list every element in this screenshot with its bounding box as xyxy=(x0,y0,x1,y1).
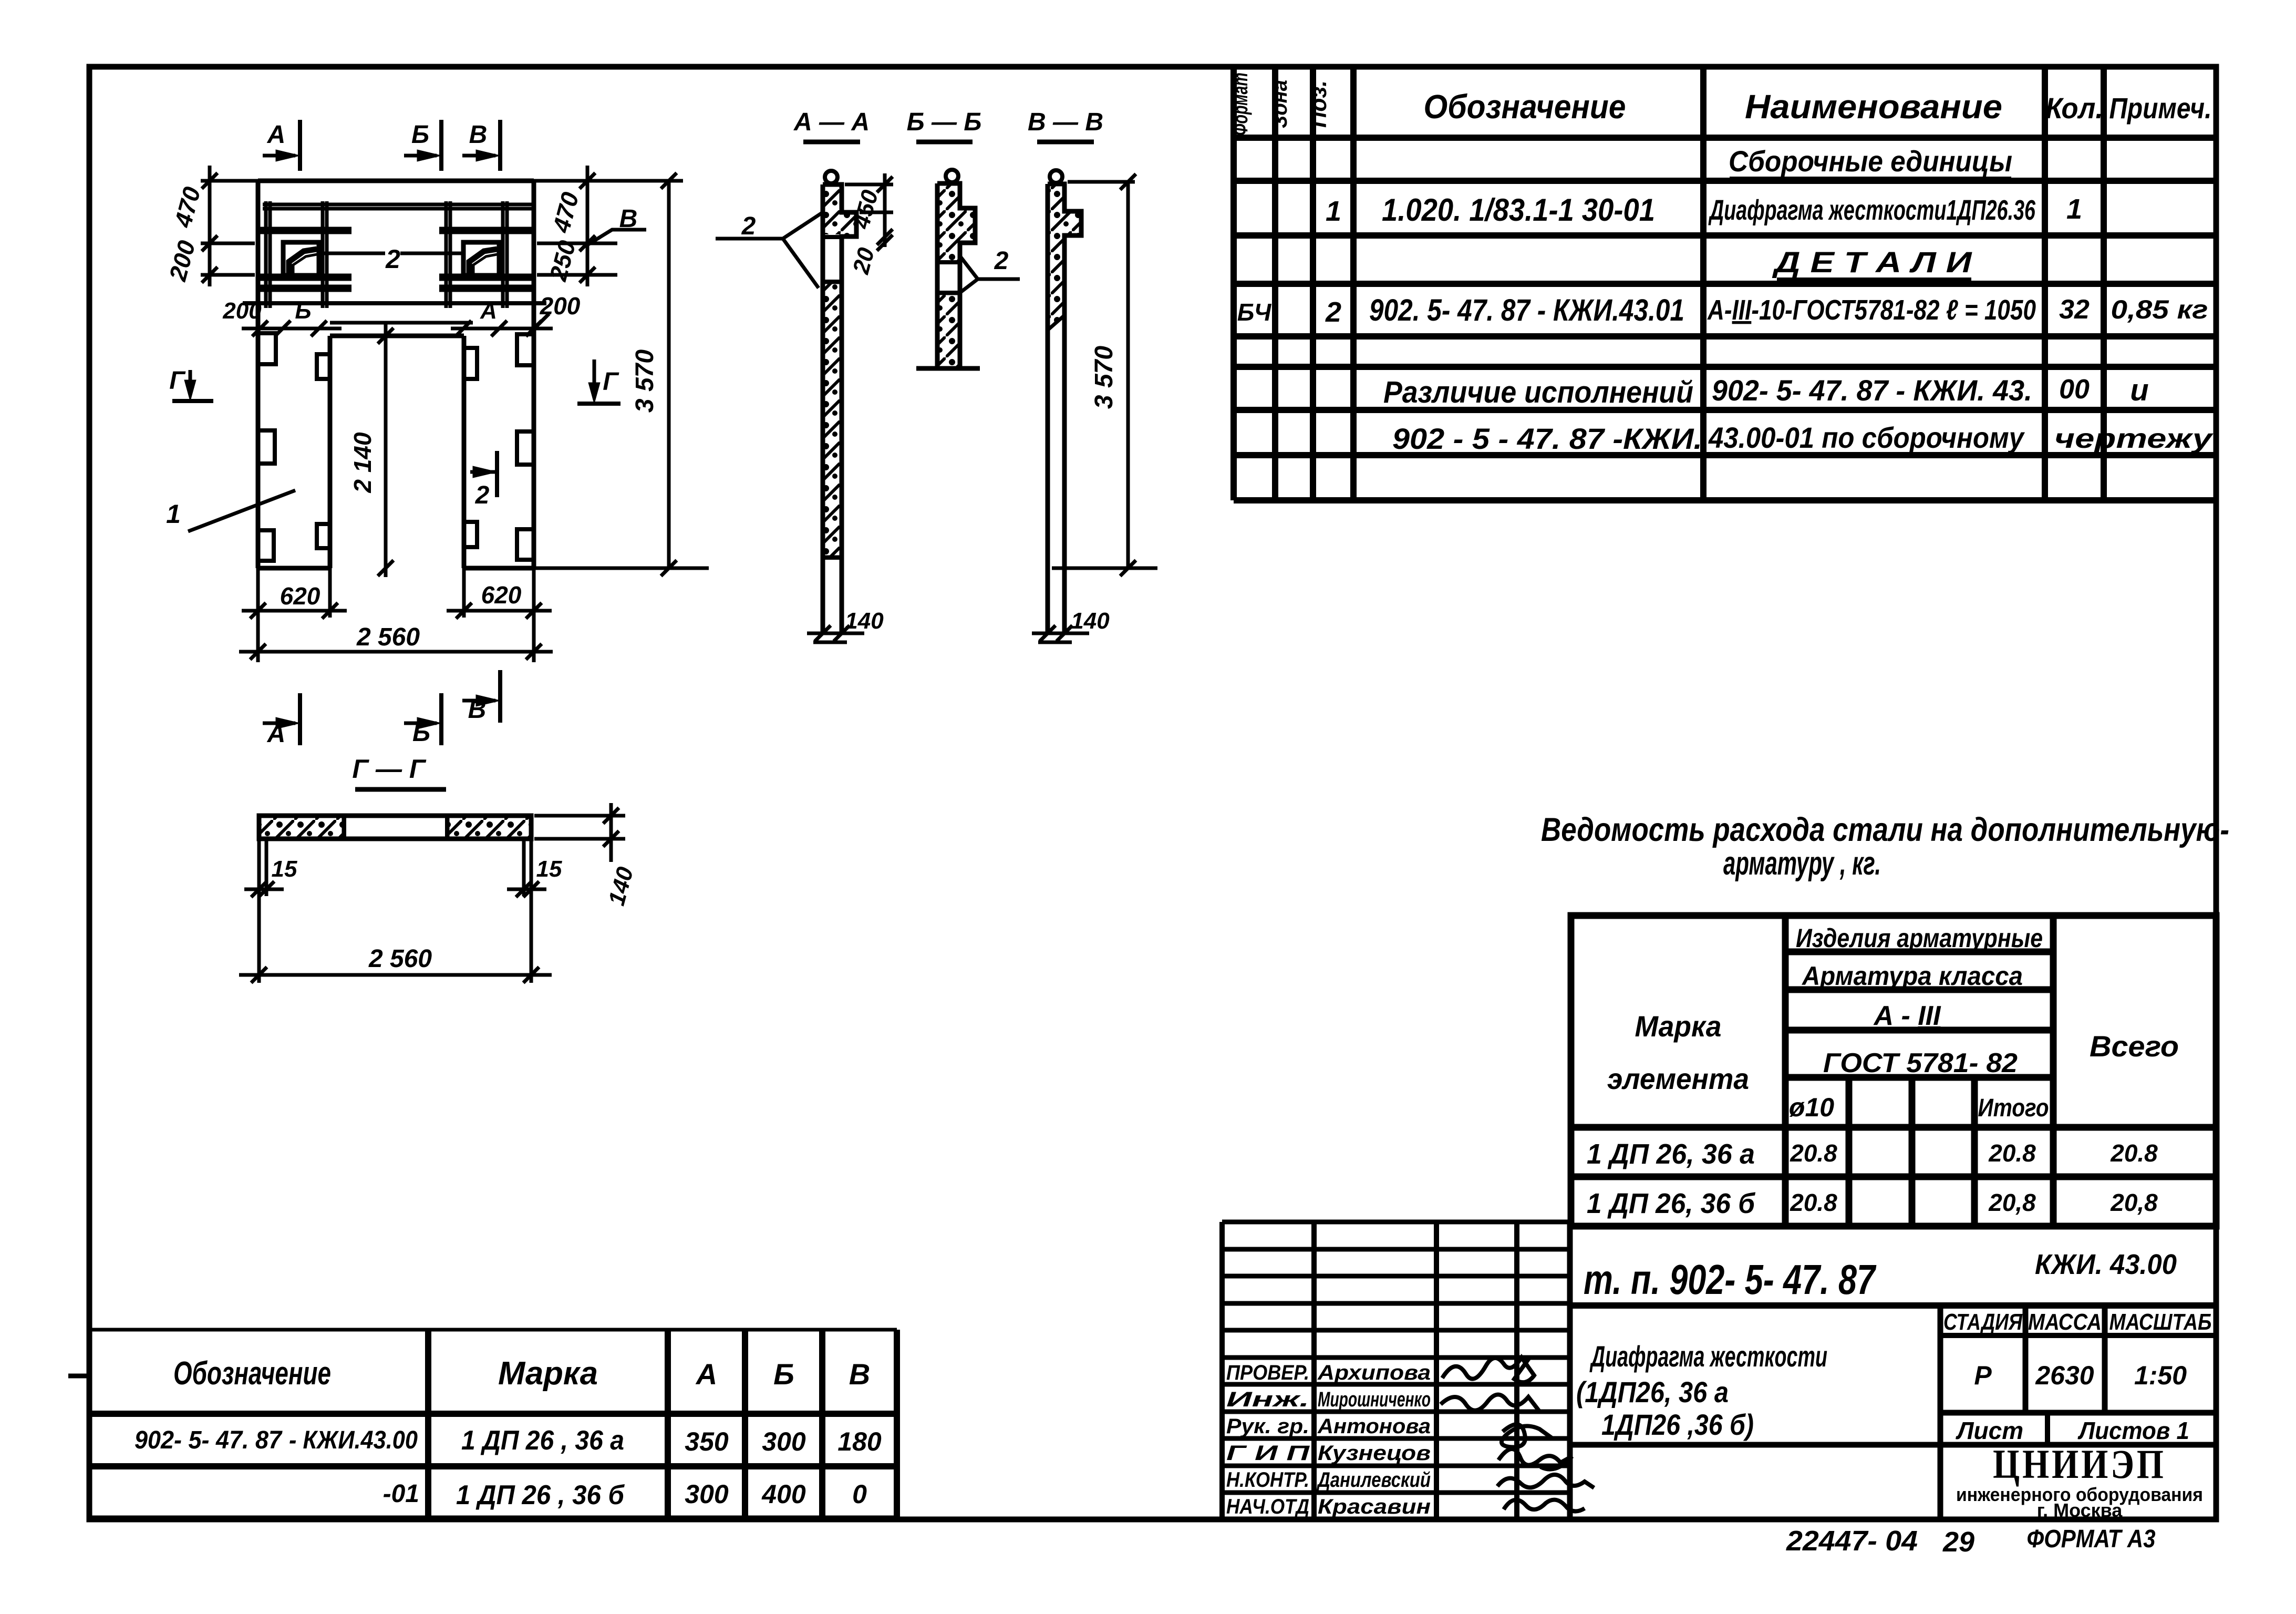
В-В column outline xyxy=(1048,184,1081,633)
marks table grid xyxy=(90,1328,897,1332)
svg-text:арматуру , кг.: арматуру , кг. xyxy=(1723,845,1881,882)
svg-text:Диафрагма жесткости: Диафрагма жесткости xyxy=(1589,1340,1827,1373)
right dim extension at 250 level xyxy=(537,273,617,277)
Б-Б base line xyxy=(916,366,980,371)
signature scribble Кузнецов xyxy=(1498,1449,1572,1469)
stage/mass/scale verticals xyxy=(2023,1305,2029,1413)
svg-text:2: 2 xyxy=(385,244,400,274)
signature scribble Мирошниченко xyxy=(1441,1395,1539,1411)
svg-text:ГОСТ 5781- 82: ГОСТ 5781- 82 xyxy=(1823,1048,2018,1078)
right window bent-bar detail xyxy=(469,249,497,274)
svg-text:Наименование: Наименование xyxy=(1745,88,2002,126)
Лист row divider xyxy=(2045,1413,2050,1445)
svg-text:Различие исполнений: Различие исполнений xyxy=(1383,375,1693,409)
Б-Б column outline xyxy=(937,183,975,368)
svg-text:Диафрагма жесткости1ДП26.36: Диафрагма жесткости1ДП26.36 xyxy=(1708,194,2035,226)
svg-text:350: 350 xyxy=(685,1427,729,1456)
svg-text:15: 15 xyxy=(536,856,562,882)
А-А main hatch xyxy=(825,284,840,556)
svg-text:20.8: 20.8 xyxy=(1790,1189,1837,1216)
svg-text:А — А: А — А xyxy=(793,108,870,136)
sub dim line under cages right xyxy=(451,327,553,331)
Г-Г slab outline xyxy=(259,816,531,839)
svg-text:400: 400 xyxy=(761,1479,806,1509)
svg-text:В: В xyxy=(469,121,488,149)
svg-text:32: 32 xyxy=(2059,294,2090,325)
svg-text:0,85 кг: 0,85 кг xyxy=(2111,295,2208,324)
stage header underline xyxy=(1940,1333,2216,1338)
svg-text:Марка: Марка xyxy=(498,1355,598,1392)
svg-text:т. п. 902- 5- 47. 87: т. п. 902- 5- 47. 87 xyxy=(1584,1256,1877,1303)
Б-Б lower hatch xyxy=(939,295,958,366)
shear key tabs doorway right xyxy=(464,348,477,379)
svg-text:902- 5- 47. 87 - КЖИ. 43.: 902- 5- 47. 87 - КЖИ. 43. xyxy=(1712,374,2032,407)
svg-text:3 570: 3 570 xyxy=(631,349,659,413)
svg-text:2 560: 2 560 xyxy=(368,945,432,973)
svg-text:20.8: 20.8 xyxy=(1790,1139,1837,1167)
svg-text:1ДП26 ,36 б): 1ДП26 ,36 б) xyxy=(1601,1408,1754,1441)
dim line 620 bottom xyxy=(242,609,347,613)
doorway left edge xyxy=(328,336,333,568)
А-А hatch bottom boundary xyxy=(823,556,842,560)
right cage rebar horizontals xyxy=(439,227,533,231)
В-В lifting loop xyxy=(1050,170,1062,183)
panel bottom edge left leg xyxy=(258,566,330,571)
svg-text:Всего: Всего xyxy=(2090,1030,2179,1063)
svg-text:Изделия арматурные: Изделия арматурные xyxy=(1796,923,2043,953)
panel outline left edge xyxy=(256,181,261,568)
svg-text:2: 2 xyxy=(741,212,756,240)
svg-text:Б — Б: Б — Б xyxy=(907,108,982,136)
Б-Б lifting loop xyxy=(946,170,958,182)
Б-Б joint lines xyxy=(937,260,960,264)
svg-text:Инж.: Инж. xyxy=(1226,1388,1309,1411)
sub dim line under cages left xyxy=(242,327,342,331)
svg-text:НАЧ.ОТД: НАЧ.ОТД xyxy=(1226,1495,1309,1518)
svg-text:МАСШТАБ: МАСШТАБ xyxy=(2109,1309,2212,1335)
long top rebar pair xyxy=(263,203,532,207)
svg-text:300: 300 xyxy=(762,1427,806,1456)
svg-text:20.8: 20.8 xyxy=(2110,1139,2158,1167)
svg-text:(1ДП26, 36 а: (1ДП26, 36 а xyxy=(1576,1375,1729,1409)
dim line 2560 bottom xyxy=(239,650,553,654)
svg-text:-01: -01 xyxy=(383,1480,419,1508)
svg-text:ø10: ø10 xyxy=(1789,1093,1834,1122)
svg-text:Антонова: Антонова xyxy=(1317,1415,1431,1438)
svg-text:ПРОВЕР.: ПРОВЕР. xyxy=(1226,1361,1309,1384)
svg-text:Г И П: Г И П xyxy=(1226,1442,1310,1465)
svg-text:200: 200 xyxy=(222,298,262,324)
svg-text:20.8: 20.8 xyxy=(1988,1139,2036,1167)
section mark 2 near doorway xyxy=(470,470,497,474)
Г-Г dim 15 right xyxy=(507,888,546,891)
svg-text:А: А xyxy=(267,121,286,149)
Б-Б head hatch xyxy=(939,186,973,260)
svg-text:Архипова: Архипова xyxy=(1317,1361,1431,1384)
dim 3570 vertical line xyxy=(667,181,671,568)
svg-text:1 ДП 26 , 36 б: 1 ДП 26 , 36 б xyxy=(456,1480,625,1510)
Г-Г right end verticals below xyxy=(530,839,533,983)
signature scribble Архипова xyxy=(1442,1357,1534,1382)
item 2 leader line between cages xyxy=(319,252,385,255)
А-А joint lines xyxy=(823,235,842,239)
В-В hatch cut diagonal xyxy=(1048,315,1064,330)
svg-text:А: А xyxy=(695,1358,717,1391)
svg-text:А: А xyxy=(480,298,497,324)
svg-text:1.020. 1/83.1-1 30-01: 1.020. 1/83.1-1 30-01 xyxy=(1382,192,1655,228)
svg-text:Данилевский: Данилевский xyxy=(1317,1468,1431,1492)
left cage rebar verticals xyxy=(264,201,268,308)
svg-text:А-III-10-ГОСТ5781-82 ℓ = 1050: А-III-10-ГОСТ5781-82 ℓ = 1050 xyxy=(1707,294,2036,326)
title block main vertical xyxy=(1567,1222,1573,1520)
svg-text:2: 2 xyxy=(994,247,1009,275)
svg-text:МАССА: МАССА xyxy=(2028,1309,2102,1335)
svg-text:чертежу: чертежу xyxy=(2054,424,2214,454)
dim 2140 vertical line xyxy=(384,323,388,577)
svg-text:1: 1 xyxy=(166,499,181,529)
svg-text:Красавин: Красавин xyxy=(1318,1495,1431,1518)
svg-text:ФОРМАТ А3: ФОРМАТ А3 xyxy=(2027,1525,2156,1553)
svg-text:Мирошниченко: Мирошниченко xyxy=(1318,1388,1431,1411)
registration tick mark left edge xyxy=(68,1374,90,1379)
svg-text:20,8: 20,8 xyxy=(2110,1189,2158,1216)
right cage rebar verticals xyxy=(444,201,448,308)
specification table grid xyxy=(1230,67,1237,500)
left window bent-bar detail xyxy=(289,249,317,274)
svg-text:1 ДП 26, 36 б: 1 ДП 26, 36 б xyxy=(1587,1188,1755,1219)
shear key tabs doorway left xyxy=(317,354,330,379)
svg-text:КЖИ. 43.00: КЖИ. 43.00 xyxy=(2035,1249,2177,1280)
right dim chain vertical xyxy=(586,166,589,286)
svg-text:Листов 1: Листов 1 xyxy=(2077,1417,2189,1444)
svg-text:20,8: 20,8 xyxy=(1988,1189,2036,1216)
top edge extension to right chain and 3570 line xyxy=(534,179,683,183)
steel table grid xyxy=(1571,916,2216,1226)
svg-text:Итого: Итого xyxy=(1978,1094,2049,1122)
right window opening xyxy=(463,242,499,275)
svg-text:Кузнецов: Кузнецов xyxy=(1318,1442,1431,1465)
В-В bottom break and dim 140 xyxy=(1032,632,1089,635)
left dim extension at 470 level xyxy=(201,242,255,245)
svg-text:- КЖИ.43.00: - КЖИ.43.00 xyxy=(289,1426,418,1454)
svg-text:В: В xyxy=(849,1358,870,1391)
svg-text:Рук. гр.: Рук. гр. xyxy=(1226,1415,1309,1438)
Г-Г dim 15 left xyxy=(244,888,284,891)
svg-text:А - III: А - III xyxy=(1873,1001,1941,1031)
svg-text:В — В: В — В xyxy=(1028,108,1103,136)
А-А bottom break and dim 140 xyxy=(807,632,864,635)
svg-text:29: 29 xyxy=(1942,1526,1974,1558)
right dim extension at 470 level xyxy=(537,242,617,245)
svg-text:Поз.: Поз. xyxy=(1306,80,1331,128)
svg-text:и: и xyxy=(2130,373,2148,407)
svg-text:Кол.: Кол. xyxy=(2045,91,2103,125)
title block line under name cell and Лист row xyxy=(1570,1442,2216,1448)
А-А column outline xyxy=(823,184,856,633)
left dim chain vertical xyxy=(208,166,212,286)
svg-text:902. 5- 47. 87 - КЖИ.43.01: 902. 5- 47. 87 - КЖИ.43.01 xyxy=(1369,293,1684,327)
svg-text:Примеч.: Примеч. xyxy=(2109,91,2212,125)
svg-text:Б: Б xyxy=(295,298,311,324)
svg-text:1 ДП 26, 36 а: 1 ДП 26, 36 а xyxy=(1587,1138,1755,1170)
svg-text:СТАДИЯ: СТАДИЯ xyxy=(1943,1309,2023,1335)
svg-text:300: 300 xyxy=(685,1479,729,1509)
svg-text:Зона: Зона xyxy=(1268,80,1291,128)
left window opening xyxy=(283,242,319,275)
svg-text:г. Москва: г. Москва xyxy=(2037,1499,2123,1521)
svg-text:Г: Г xyxy=(169,367,186,395)
svg-text:Р: Р xyxy=(1974,1361,1992,1390)
svg-text:620: 620 xyxy=(280,582,320,610)
svg-text:Обозначение: Обозначение xyxy=(1424,88,1626,126)
svg-text:620: 620 xyxy=(481,581,522,609)
В-В dim 3570 xyxy=(1068,180,1135,184)
svg-text:Формат: Формат xyxy=(1229,73,1252,136)
svg-text:0: 0 xyxy=(852,1479,867,1509)
Г-Г inner verticals xyxy=(342,816,346,839)
signature scribble Красавин xyxy=(1504,1500,1585,1512)
svg-text:2630: 2630 xyxy=(2035,1361,2094,1390)
svg-text:Сборочные единицы: Сборочные единицы xyxy=(1729,145,2012,178)
svg-text:140: 140 xyxy=(845,608,884,634)
signature scribble Данилевский xyxy=(1497,1475,1594,1488)
title block line under т.п. row xyxy=(1570,1302,2216,1309)
svg-text:22447- 04: 22447- 04 xyxy=(1786,1525,1918,1557)
svg-text:2: 2 xyxy=(475,481,490,509)
svg-text:1:50: 1:50 xyxy=(2134,1361,2187,1390)
Г-Г dim 140 right xyxy=(534,814,625,818)
svg-text:БЧ: БЧ xyxy=(1237,299,1272,326)
svg-text:Д Е Т А Л И: Д Е Т А Л И xyxy=(1772,245,1973,279)
title block vertical between name and stage xyxy=(1938,1305,1943,1520)
item 1 leader xyxy=(188,490,295,531)
shear key tabs left edge xyxy=(258,333,276,364)
door top extension for 2140 dim xyxy=(330,321,473,325)
beam zone bottom line xyxy=(243,301,546,305)
svg-text:Ведомость расхода стали на: Ведомость расхода стали на дополнительну… xyxy=(1541,811,2229,848)
panel outline top edge xyxy=(258,179,534,183)
svg-text:1: 1 xyxy=(1326,196,1341,227)
svg-text:Б: Б xyxy=(411,121,429,149)
А-А dim 20 xyxy=(877,235,893,251)
svg-text:15: 15 xyxy=(272,856,297,882)
svg-text:00: 00 xyxy=(2059,374,2090,405)
Г-Г left end verticals below xyxy=(257,839,261,983)
svg-text:Обозначение: Обозначение xyxy=(173,1355,331,1392)
Г-Г hatch right zone xyxy=(449,818,529,837)
А-А dim 450 xyxy=(845,183,893,187)
svg-text:1: 1 xyxy=(2066,193,2082,225)
shear key tabs right edge xyxy=(517,334,534,365)
svg-text:902- 5- 47. 87: 902- 5- 47. 87 xyxy=(135,1426,283,1454)
svg-text:180: 180 xyxy=(837,1427,882,1456)
stage values line xyxy=(1940,1410,2216,1416)
svg-text:2 140: 2 140 xyxy=(349,432,376,494)
left cage rebar horizontals xyxy=(260,227,351,231)
svg-text:Г: Г xyxy=(603,368,619,396)
А-А head hatch xyxy=(825,187,854,234)
doorway right edge xyxy=(462,336,467,568)
top edge extension to left chain xyxy=(201,179,258,183)
svg-text:Марка: Марка xyxy=(1635,1010,1722,1043)
stamp table grid (signatures) xyxy=(1219,1222,1225,1520)
svg-text:Г — Г: Г — Г xyxy=(352,754,426,784)
left dim extension at 200 level xyxy=(201,273,255,277)
panel bottom edge right leg xyxy=(464,566,534,571)
svg-text:Арматура класса: Арматура класса xyxy=(1801,961,2023,991)
svg-text:Лист: Лист xyxy=(1956,1417,2023,1444)
В-В head hatch xyxy=(1050,186,1079,328)
doorway top edge xyxy=(330,334,464,338)
dim extensions at panel bottom xyxy=(256,568,260,662)
svg-text:Б: Б xyxy=(773,1358,794,1391)
signature scribble Антонова xyxy=(1502,1424,1553,1447)
svg-text:элемента: элемента xyxy=(1607,1062,1749,1095)
panel outline right edge xyxy=(532,181,536,568)
svg-text:ЦНИИЭП: ЦНИИЭП xyxy=(1993,1441,2166,1487)
svg-text:Н.КОНТР.: Н.КОНТР. xyxy=(1226,1468,1309,1492)
svg-text:1 ДП 26 , 36 а: 1 ДП 26 , 36 а xyxy=(461,1425,624,1456)
svg-text:902 - 5 - 47. 87 -КЖИ.: 902 - 5 - 47. 87 -КЖИ. xyxy=(1392,422,1702,455)
svg-text:2 560: 2 560 xyxy=(356,623,420,651)
Г-Г hatch left zone xyxy=(261,818,342,837)
svg-text:140: 140 xyxy=(1071,608,1110,634)
svg-text:2: 2 xyxy=(1325,296,1341,328)
Г-Г dim 2560 xyxy=(239,973,552,977)
А-А lifting loop xyxy=(825,171,837,183)
svg-text:3 570: 3 570 xyxy=(1090,346,1118,409)
svg-text:43.00-01 по сборочному: 43.00-01 по сборочному xyxy=(1708,421,2025,454)
